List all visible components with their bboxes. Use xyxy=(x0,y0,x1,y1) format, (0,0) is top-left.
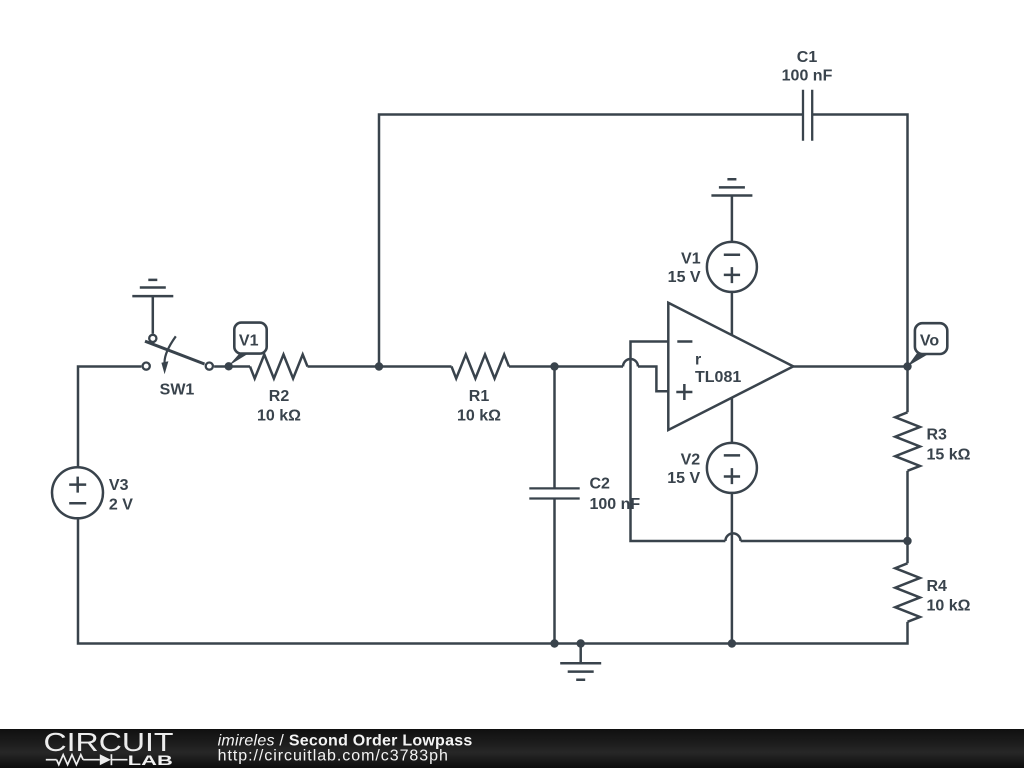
node R1/C2 junction xyxy=(550,362,558,370)
svg-text:TL081: TL081 xyxy=(695,369,741,386)
capacitor C1 xyxy=(803,90,812,141)
wire switch to R2 xyxy=(214,365,250,368)
wire V2 bottom xyxy=(731,493,734,644)
resistor R1 xyxy=(452,355,510,379)
ground above V1 xyxy=(711,179,752,242)
svg-text:100 nF: 100 nF xyxy=(782,68,833,85)
op-amp U1 TL081 xyxy=(668,303,793,430)
svg-text:15 kΩ: 15 kΩ xyxy=(927,447,971,464)
svg-text:R4: R4 xyxy=(927,578,948,595)
wire C1 feedback left segment xyxy=(379,115,803,367)
wire op-amp V- pin xyxy=(731,398,734,443)
switch SW1 xyxy=(143,335,213,375)
wire bottom rail xyxy=(78,518,908,643)
svg-text:15 V: 15 V xyxy=(668,269,701,286)
node R2/R1/C1 junction xyxy=(375,362,383,370)
wire feedback net to inverting input xyxy=(631,342,908,542)
wire C1 feedback right segment xyxy=(812,115,907,413)
svg-text:15 V: 15 V xyxy=(667,470,700,487)
svg-text:r: r xyxy=(695,351,701,368)
svg-text:10 kΩ: 10 kΩ xyxy=(257,407,301,424)
wire R1 to op-amp with hop xyxy=(509,359,668,391)
svg-text:V1: V1 xyxy=(681,251,701,268)
svg-text:LAB: LAB xyxy=(128,752,173,768)
wire R2 to R1 xyxy=(308,365,452,368)
node label Vo xyxy=(907,323,947,366)
node output junction xyxy=(903,362,911,370)
wire V3 to switch xyxy=(78,367,141,468)
capacitor C2 xyxy=(529,488,579,498)
ground above switch xyxy=(132,280,173,334)
voltage source V2 xyxy=(707,443,757,493)
wire C2 branch bottom xyxy=(553,499,556,644)
footer bar xyxy=(0,729,1024,768)
logo resistor-diode glyph xyxy=(46,754,128,765)
wire op-amp output xyxy=(793,365,907,368)
svg-text:R2: R2 xyxy=(269,388,290,405)
label C2 value xyxy=(590,476,641,513)
resistor R2 xyxy=(250,355,308,379)
node V1 label anchor xyxy=(225,362,233,370)
svg-text:C2: C2 xyxy=(590,476,611,493)
voltage source V1 xyxy=(707,242,757,292)
svg-text:V2: V2 xyxy=(681,452,701,469)
svg-text:SW1: SW1 xyxy=(160,382,195,399)
node C2 bottom junction xyxy=(550,639,558,647)
svg-text:V3: V3 xyxy=(109,477,129,494)
voltage source V3 xyxy=(52,467,103,518)
wire R3 to R4 xyxy=(906,471,909,563)
resistor R3 xyxy=(895,412,920,471)
svg-text:10 kΩ: 10 kΩ xyxy=(457,407,501,424)
svg-text:R3: R3 xyxy=(927,427,948,444)
svg-text:2 V: 2 V xyxy=(109,497,133,514)
resistor R4 xyxy=(895,563,920,622)
wire C2 branch top xyxy=(553,367,556,489)
node label V1 xyxy=(229,323,267,366)
svg-text:http://circuitlab.com/c3783ph: http://circuitlab.com/c3783ph xyxy=(218,748,449,765)
svg-text:R1: R1 xyxy=(469,388,490,405)
ground bottom xyxy=(560,644,601,680)
node V2 bottom junction xyxy=(728,639,736,647)
node ground junction xyxy=(577,639,585,647)
svg-text:V1: V1 xyxy=(239,332,259,349)
junction node dots xyxy=(225,362,912,648)
svg-text:10 kΩ: 10 kΩ xyxy=(927,598,971,615)
wire op-amp V+ pin xyxy=(731,292,734,335)
node R3/R4 feedback junction xyxy=(903,537,911,545)
svg-text:Vo: Vo xyxy=(920,333,939,350)
svg-text:100 nF: 100 nF xyxy=(590,496,641,513)
svg-text:C1: C1 xyxy=(797,49,818,66)
